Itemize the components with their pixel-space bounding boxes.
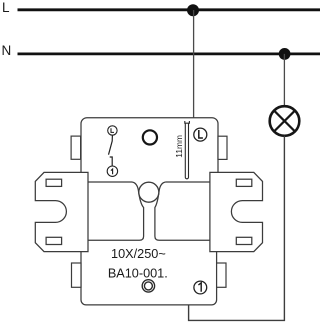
svg-text:BA10-001.: BA10-001.	[108, 266, 168, 280]
svg-text:L: L	[2, 0, 10, 15]
switch body upper section	[81, 118, 218, 182]
screw head	[142, 280, 154, 292]
junction dot on N line	[279, 48, 291, 60]
wire N supply line	[18, 53, 321, 56]
terminal marking 1	[194, 281, 207, 294]
svg-text:N: N	[2, 43, 12, 58]
mounting claw left	[35, 172, 88, 251]
terminal tab lower-left	[72, 263, 82, 287]
switch lever	[109, 135, 113, 154]
depth gauge slot	[185, 121, 190, 179]
svg-text:11mm: 11mm	[174, 135, 184, 158]
terminal marking L	[194, 128, 207, 141]
indicator hole	[143, 130, 157, 144]
wire from L junction down to switch	[193, 10, 195, 118]
lamp E1	[270, 106, 300, 136]
switch symbol contact 1	[107, 166, 117, 176]
wire from lamp down and left to switch bottom	[189, 136, 285, 321]
terminal tab upper-right	[218, 136, 227, 159]
switch fixed contact tick	[110, 157, 113, 166]
terminal tab lower-right	[217, 263, 226, 287]
switch body lower section	[81, 240, 217, 305]
wire from N junction down to lamp	[283, 54, 285, 106]
wire L supply line	[18, 8, 321, 11]
svg-text:10X/250~: 10X/250~	[111, 247, 166, 261]
mounting claw right	[210, 172, 263, 251]
switch symbol contact L	[108, 126, 117, 135]
keyhole mounting post	[132, 182, 166, 240]
junction dot on L line	[187, 4, 199, 16]
terminal tab upper-left	[71, 136, 81, 159]
